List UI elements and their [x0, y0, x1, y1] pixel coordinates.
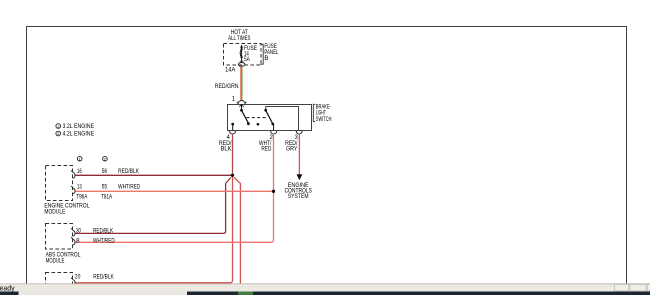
svg-text:WHT/RED: WHT/RED — [118, 184, 141, 191]
svg-text:30: 30 — [76, 228, 81, 235]
svg-text:56: 56 — [102, 168, 108, 175]
svg-text:14A: 14A — [225, 66, 236, 73]
svg-text:T96A: T96A — [76, 194, 88, 201]
svg-text:55: 55 — [102, 184, 108, 191]
svg-text:4.2L ENGINE: 4.2L ENGINE — [63, 131, 95, 138]
svg-text:13: 13 — [77, 184, 82, 191]
svg-text:20: 20 — [75, 274, 81, 281]
svg-text:RED/GRN: RED/GRN — [215, 83, 239, 90]
svg-text:SWITCH: SWITCH — [316, 116, 332, 123]
svg-text:1: 1 — [57, 125, 59, 129]
svg-text:MODULE: MODULE — [44, 209, 65, 216]
svg-text:2: 2 — [104, 157, 106, 161]
svg-text:MODULE: MODULE — [46, 257, 65, 264]
svg-text:5A: 5A — [244, 56, 251, 63]
svg-text:3.2L ENGINE: 3.2L ENGINE — [63, 123, 95, 130]
svg-text:ALL TIMES: ALL TIMES — [228, 35, 250, 42]
svg-text:2: 2 — [57, 132, 59, 136]
svg-text:RED/BLK: RED/BLK — [93, 228, 113, 235]
svg-text:T81A: T81A — [101, 194, 113, 201]
svg-text:SYSTEM: SYSTEM — [288, 193, 309, 200]
svg-text:GRY: GRY — [286, 146, 298, 153]
svg-text:1: 1 — [232, 95, 236, 102]
svg-text:RED/BLK: RED/BLK — [93, 274, 114, 281]
svg-text:WHT/RED: WHT/RED — [93, 237, 115, 244]
svg-text:16: 16 — [77, 168, 82, 175]
svg-text:1: 1 — [79, 157, 81, 161]
svg-text:RED/BLK: RED/BLK — [118, 168, 139, 175]
svg-text:B: B — [264, 55, 268, 62]
svg-text:eady: eady — [0, 285, 15, 292]
svg-text:BLK: BLK — [221, 146, 232, 153]
svg-text:RED: RED — [261, 146, 271, 153]
